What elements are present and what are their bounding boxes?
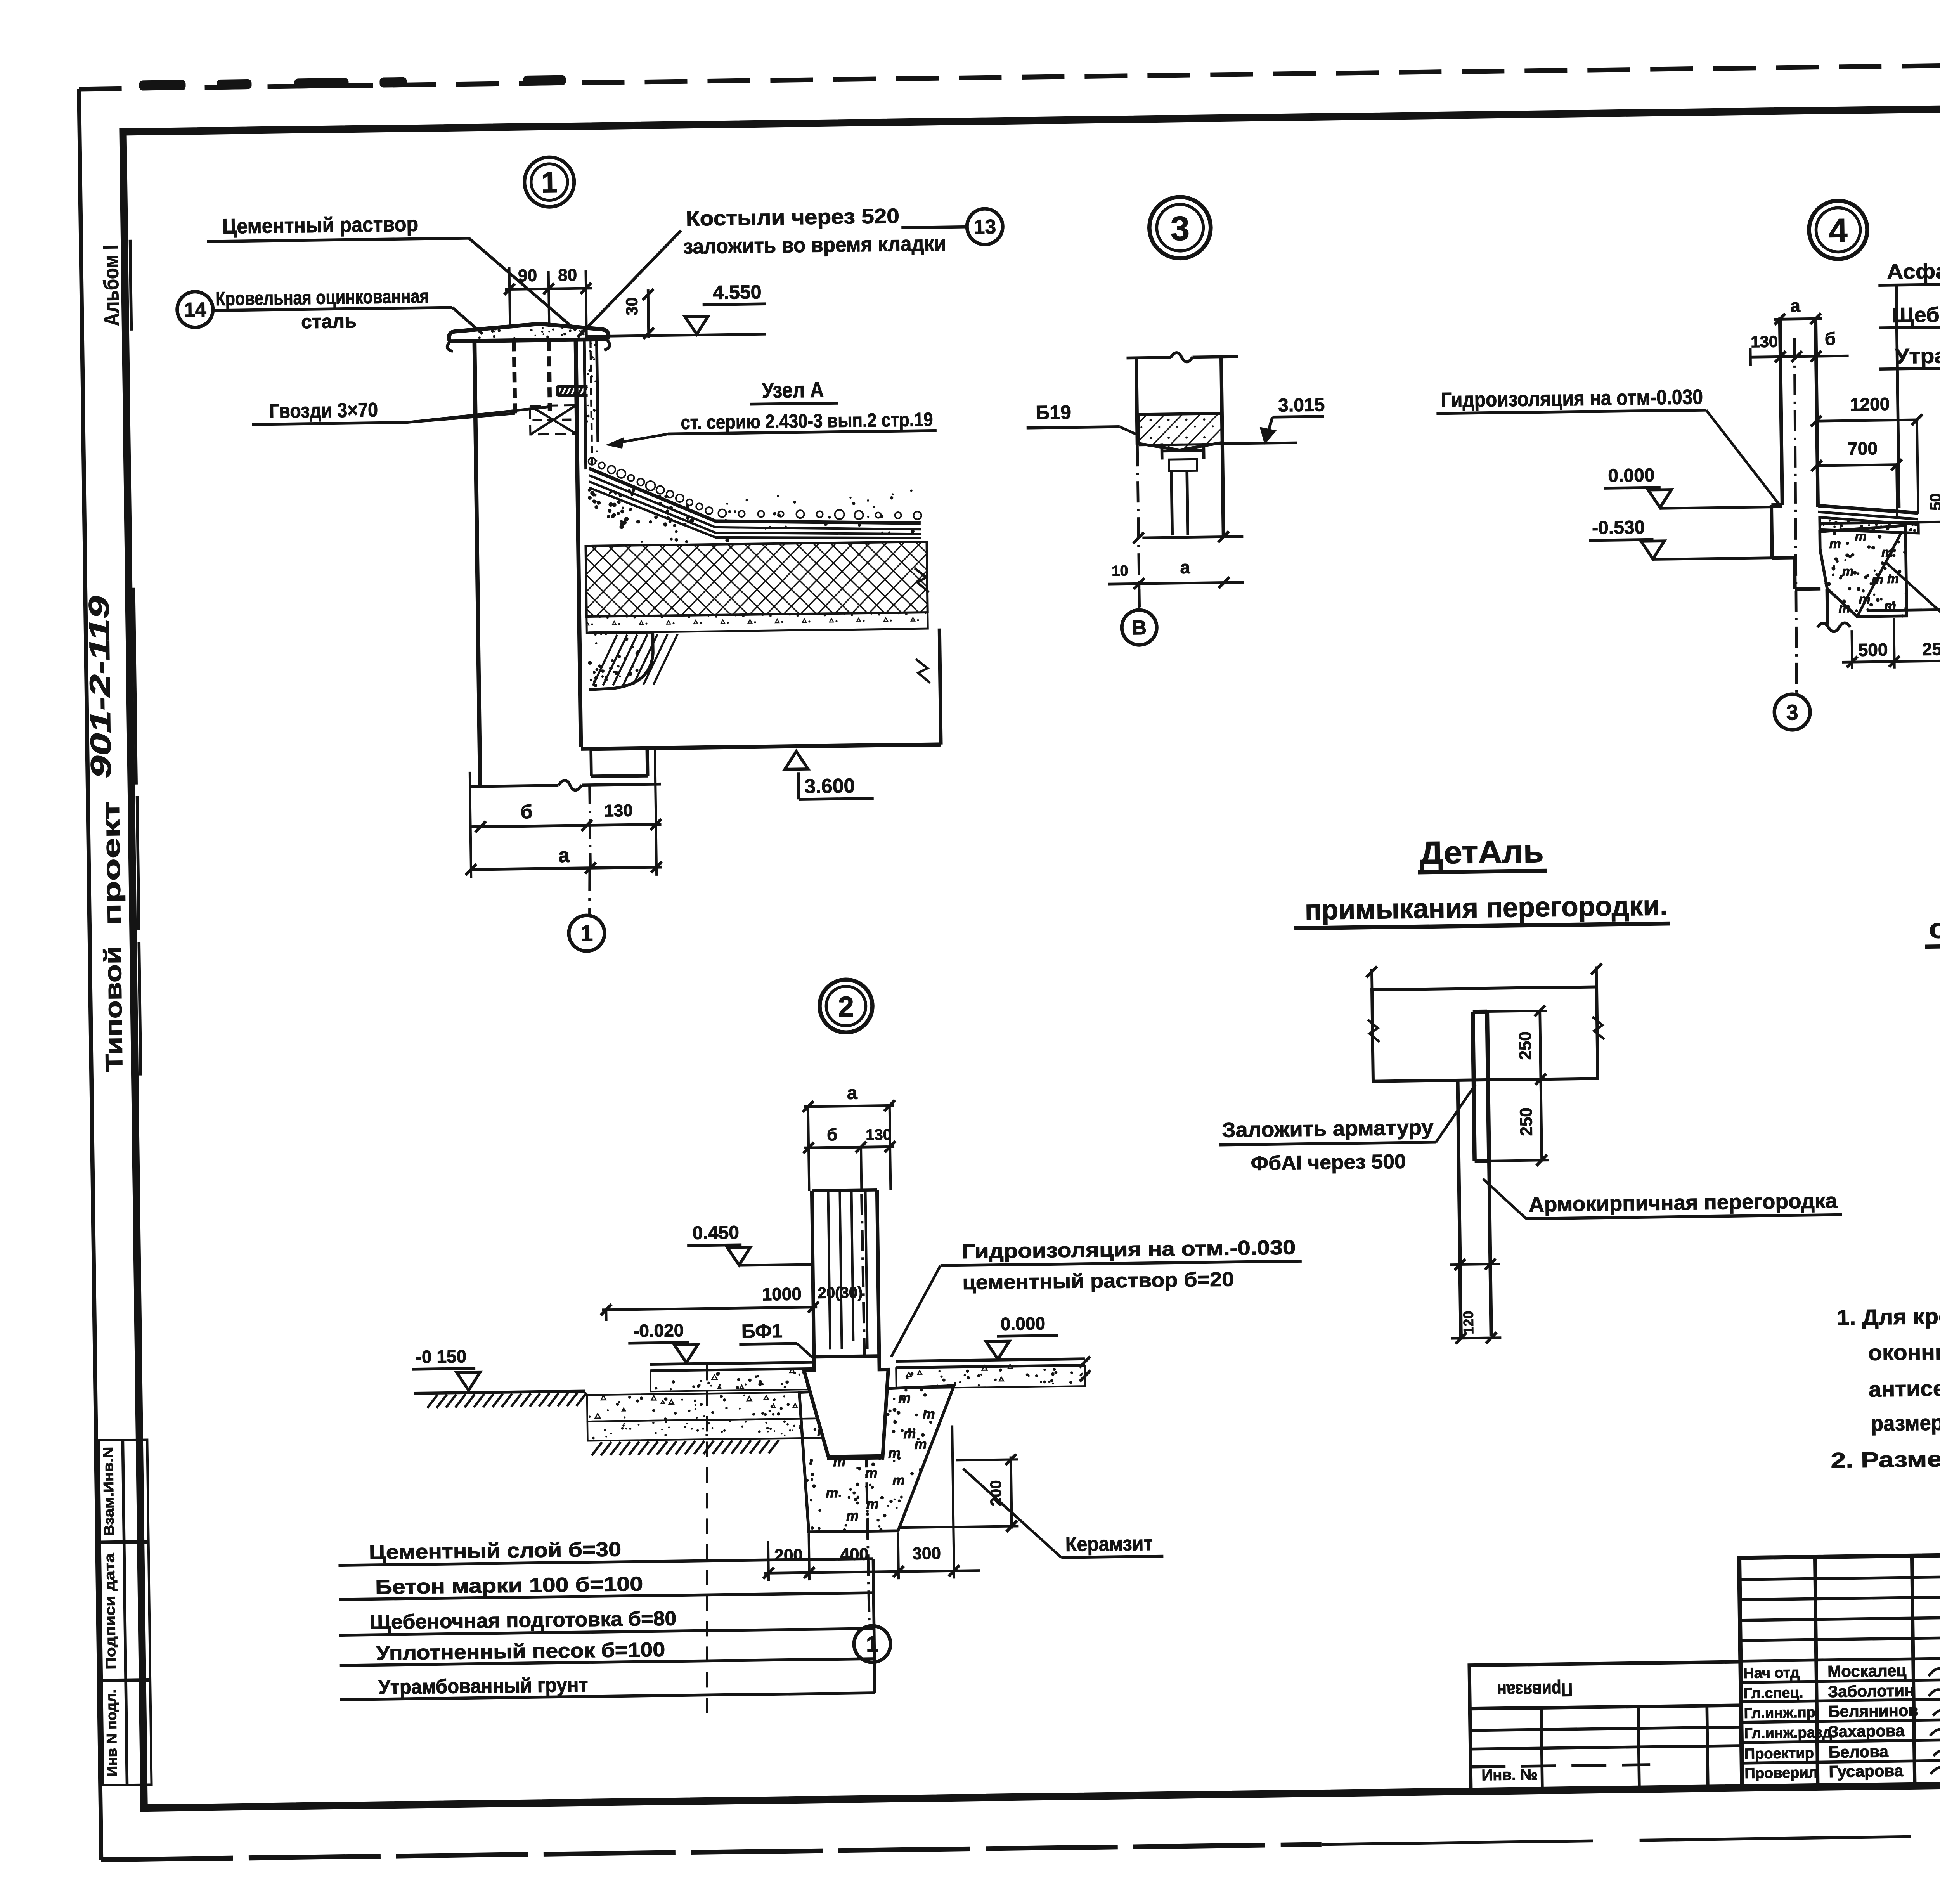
svg-text:250: 250 bbox=[1517, 1107, 1536, 1136]
svg-text:Привязан: Привязан bbox=[1497, 1679, 1573, 1700]
svg-text:m: m bbox=[888, 1445, 901, 1461]
svg-text:80: 80 bbox=[558, 265, 577, 285]
detail 4 wall faces bbox=[1780, 317, 1782, 505]
signatures squiggles bbox=[1928, 1660, 1940, 1676]
svg-text:0.450: 0.450 bbox=[692, 1222, 739, 1244]
ground hatch under sand bbox=[592, 1442, 602, 1455]
svg-text:m: m bbox=[846, 1507, 859, 1523]
svg-text:Керамзит: Керамзит bbox=[1065, 1532, 1153, 1556]
svg-text:а: а bbox=[847, 1083, 858, 1103]
title block outer bbox=[1739, 1548, 1940, 1788]
svg-text:13: 13 bbox=[973, 216, 996, 239]
svg-text:130: 130 bbox=[604, 801, 633, 821]
svg-text:Заболотин: Заболотин bbox=[1828, 1681, 1914, 1701]
svg-text:проект: проект bbox=[98, 801, 126, 926]
svg-text:1000: 1000 bbox=[762, 1284, 802, 1304]
svg-text:Белянинов: Белянинов bbox=[1828, 1701, 1918, 1720]
svg-text:-0.020: -0.020 bbox=[633, 1320, 684, 1341]
detail 3 wall edges bbox=[1136, 358, 1138, 445]
slab break mark bbox=[915, 568, 929, 592]
svg-text:14: 14 bbox=[184, 298, 206, 321]
svg-text:250: 250 bbox=[1922, 639, 1940, 659]
svg-text:700: 700 bbox=[1848, 438, 1878, 459]
svg-text:примыкания перегородки.: примыкания перегородки. bbox=[1304, 890, 1668, 926]
dimension a under wall bbox=[471, 867, 662, 870]
svg-text:1: 1 bbox=[866, 1632, 879, 1657]
detail 3 window head profile bbox=[1162, 450, 1204, 451]
svg-text:ФбАI через 500: ФбАI через 500 bbox=[1251, 1150, 1406, 1175]
svg-text:Б19: Б19 bbox=[1036, 401, 1071, 423]
section trace dashed vertical bbox=[702, 1365, 712, 1722]
svg-text:-0.530: -0.530 bbox=[1592, 517, 1645, 539]
svg-text:Гидроизоляция на отм-0.030: Гидроизоляция на отм-0.030 bbox=[1441, 385, 1703, 412]
svg-text:m: m bbox=[892, 1472, 905, 1488]
detail 2 axis dash-dot bbox=[861, 1147, 861, 1190]
elevation 3.600 bbox=[785, 751, 808, 769]
svg-text:10: 10 bbox=[1112, 563, 1128, 580]
otmostka slab detail 4 bbox=[1818, 504, 1918, 514]
detail 3 dim 10 a bbox=[1108, 582, 1244, 584]
leader nails bbox=[406, 413, 515, 423]
svg-text:Проектир: Проектир bbox=[1744, 1745, 1814, 1762]
svg-text:Инв. №: Инв. № bbox=[1481, 1766, 1538, 1784]
svg-text:Гл.спец.: Гл.спец. bbox=[1744, 1685, 1803, 1702]
detail 3 wall top line with break bbox=[1127, 357, 1171, 358]
svg-text:б: б bbox=[827, 1125, 838, 1144]
detail 1 marker circle bbox=[524, 157, 575, 207]
svg-text:m: m bbox=[1887, 572, 1899, 586]
svg-text:2: 2 bbox=[838, 991, 854, 1023]
svg-text:m: m bbox=[1842, 564, 1854, 579]
leader kostyli bbox=[576, 230, 682, 337]
gravel pebbles bbox=[589, 458, 596, 465]
wall hook bracket bbox=[557, 385, 587, 388]
rect top extensions bbox=[1370, 969, 1373, 990]
svg-text:m: m bbox=[826, 1485, 838, 1500]
svg-text:Асфальтовая отмостка б=25: Асфальтовая отмостка б=25 bbox=[1887, 256, 1940, 284]
svg-text:1200: 1200 bbox=[1850, 394, 1890, 414]
svg-text:90: 90 bbox=[518, 266, 537, 286]
svg-text:сталь: сталь bbox=[301, 310, 357, 333]
svg-text:130: 130 bbox=[866, 1126, 892, 1143]
leader gidroizolyaciya 4 bbox=[1706, 409, 1781, 508]
svg-text:Белова: Белова bbox=[1829, 1742, 1889, 1761]
svg-text:m: m bbox=[1829, 536, 1841, 551]
left ground line and hatch bbox=[414, 1391, 585, 1393]
dimension b 130 under wall bbox=[471, 825, 662, 827]
svg-text:m: m bbox=[1884, 599, 1896, 613]
svg-text:m: m bbox=[1855, 529, 1867, 544]
svg-text:Заложить арматуру: Заложить арматуру bbox=[1222, 1116, 1434, 1142]
detail 4 foundation profile bbox=[1771, 503, 1782, 507]
svg-text:Альбом I: Альбом I bbox=[99, 244, 124, 326]
svg-text:Гл.инж.пр: Гл.инж.пр bbox=[1744, 1705, 1815, 1722]
nails in wall bbox=[514, 341, 515, 415]
break marks on rect bbox=[1368, 1019, 1380, 1042]
svg-text:4: 4 bbox=[1829, 212, 1848, 249]
svg-text:Щебеночная подготовка: Щебеночная подготовка bbox=[1892, 300, 1940, 327]
svg-text:Щебеночная подготовка б=80: Щебеночная подготовка б=80 bbox=[370, 1607, 677, 1634]
partition below bbox=[1458, 1080, 1461, 1337]
svg-text:m: m bbox=[922, 1406, 935, 1422]
svg-text:901-2-119: 901-2-119 bbox=[83, 596, 117, 778]
svg-text:Взам.Инв.N: Взам.Инв.N bbox=[100, 1447, 117, 1536]
svg-text:заложить во время кладки: заложить во время кладки bbox=[683, 232, 946, 258]
svg-text:Нач отд: Нач отд bbox=[1743, 1665, 1800, 1682]
svg-text:m: m bbox=[1872, 572, 1884, 587]
svg-text:а: а bbox=[558, 844, 570, 867]
svg-text:БФ1: БФ1 bbox=[741, 1320, 783, 1342]
axis line detail 1 bbox=[589, 785, 591, 868]
svg-text:m: m bbox=[1881, 545, 1893, 560]
svg-text:цементный раствор б=20: цементный раствор б=20 bbox=[962, 1268, 1234, 1294]
svg-text:Гидроизоляция на отм.-0.030: Гидроизоляция на отм.-0.030 bbox=[962, 1236, 1296, 1263]
leader armokirpichnaya bbox=[1483, 1178, 1526, 1219]
axis circle 1 detail 1 bbox=[568, 915, 605, 951]
svg-text:Инв N подл.: Инв N подл. bbox=[103, 1689, 120, 1776]
svg-text:m: m bbox=[866, 1496, 879, 1512]
roof flashing strip on wall bbox=[584, 340, 586, 469]
svg-text:Армокирпичная перегородка: Армокирпичная перегородка bbox=[1529, 1189, 1838, 1216]
svg-text:В: В bbox=[1132, 617, 1147, 639]
wall plan rectangle bbox=[1372, 987, 1598, 1081]
title block verticals left section bbox=[1815, 1557, 1817, 1787]
svg-text:Типовой: Типовой bbox=[99, 946, 128, 1072]
svg-text:300: 300 bbox=[912, 1544, 941, 1563]
leader node A with arrow bbox=[615, 434, 668, 443]
svg-text:б: б bbox=[1825, 329, 1836, 349]
svg-text:-0 150: -0 150 bbox=[416, 1346, 466, 1367]
leader roofing steel bbox=[452, 307, 483, 334]
svg-text:4.550: 4.550 bbox=[713, 281, 762, 303]
partition wall lines bbox=[812, 1190, 877, 1191]
svg-text:а: а bbox=[1180, 557, 1190, 577]
svg-text:m: m bbox=[865, 1465, 878, 1481]
svg-text:1: 1 bbox=[541, 166, 558, 199]
detail 4 marker circle bbox=[1809, 201, 1868, 260]
underlayer crushed stone band bbox=[587, 1392, 825, 1422]
svg-text:Цементный раствор: Цементный раствор bbox=[222, 212, 419, 238]
svg-text:Захарова: Захарова bbox=[1828, 1722, 1905, 1741]
svg-text:Гл.инж.разд: Гл.инж.разд bbox=[1744, 1724, 1832, 1742]
svg-text:Узел А: Узел А bbox=[762, 377, 824, 402]
svg-text:Проверил: Проверил bbox=[1744, 1764, 1818, 1781]
leader zalozhit bbox=[1435, 1084, 1476, 1142]
title block rows left section bbox=[1739, 1576, 1940, 1580]
parapet cap bbox=[449, 323, 608, 341]
detail 3 lower dim line bbox=[1142, 537, 1243, 538]
detail 3 axis dash-dot bbox=[1137, 445, 1139, 607]
svg-text:20(30): 20(30) bbox=[818, 1284, 863, 1301]
axis circle 1 detail 2 bbox=[854, 1625, 891, 1662]
svg-text:3: 3 bbox=[1786, 700, 1798, 724]
wall shaft bbox=[475, 342, 480, 786]
svg-text:Кровельная оцинкованная: Кровельная оцинкованная bbox=[215, 285, 429, 310]
axis circle V bbox=[1139, 584, 1140, 610]
wall bottom line with break bbox=[470, 785, 558, 787]
dimension 120 partition bbox=[1450, 1264, 1500, 1265]
slab with panel end bbox=[590, 745, 941, 749]
floor slab right of wall bbox=[896, 1359, 1085, 1361]
slab top dotted band bbox=[587, 612, 928, 633]
svg-text:б: б bbox=[520, 801, 533, 823]
detail 3 marker circle bbox=[1149, 197, 1211, 259]
axis circle 3 detail 4 bbox=[1774, 694, 1810, 730]
detail 2 marker circle bbox=[819, 979, 873, 1033]
floor slab left of wall bbox=[650, 1362, 814, 1364]
svg-text:Утрамбованный грунт: Утрамбованный грунт bbox=[378, 1674, 588, 1699]
svg-text:опирания перегородки.: опирания перегородки. bbox=[1929, 909, 1940, 944]
svg-text:ДетАль: ДетАль bbox=[1419, 834, 1544, 871]
underlayer sand band bbox=[587, 1419, 826, 1441]
svg-text:размером 120×120×65.: размером 120×120×65. bbox=[1871, 1408, 1940, 1435]
wall base step bbox=[581, 748, 647, 749]
insulation crosshatch block bbox=[586, 542, 928, 617]
scan smudges top border bbox=[139, 80, 185, 91]
svg-text:Гусарова: Гусарова bbox=[1829, 1762, 1904, 1781]
keramzit trapezoid fill bbox=[799, 1386, 956, 1532]
foundation beam BF1 white bbox=[804, 1356, 889, 1457]
svg-text:Москалец: Москалец bbox=[1827, 1661, 1907, 1681]
svg-text:30: 30 bbox=[622, 297, 641, 315]
svg-text:3.600: 3.600 bbox=[804, 774, 855, 798]
detail 4 axis dash-dot bbox=[1792, 338, 1799, 694]
svg-text:0.000: 0.000 bbox=[1608, 465, 1655, 486]
callout circle 13 bbox=[967, 209, 1003, 245]
svg-text:Гвозди 3×70: Гвозди 3×70 bbox=[269, 399, 378, 423]
labels connector line bbox=[1896, 285, 1899, 508]
svg-text:50: 50 bbox=[1927, 493, 1940, 511]
svg-text:m: m bbox=[1859, 592, 1871, 607]
svg-text:а: а bbox=[1790, 296, 1801, 316]
svg-text:120: 120 bbox=[1460, 1311, 1476, 1334]
callout circle 14 bbox=[177, 291, 213, 327]
leader cement mortar bbox=[469, 237, 576, 331]
svg-text:500: 500 bbox=[1858, 639, 1888, 660]
roof screed dotted band bbox=[658, 495, 662, 499]
sheet outer border bbox=[79, 58, 1940, 89]
svg-text:m: m bbox=[914, 1436, 927, 1452]
left margin stamp boxes bbox=[99, 1440, 151, 1785]
svg-text:Подписи дата: Подписи дата bbox=[101, 1552, 119, 1670]
svg-text:3.015: 3.015 bbox=[1278, 395, 1325, 416]
partition slot bbox=[1473, 1010, 1487, 1014]
svg-text:250: 250 bbox=[1516, 1031, 1535, 1060]
svg-text:1: 1 bbox=[580, 921, 593, 946]
svg-text:130: 130 bbox=[1751, 332, 1778, 351]
svg-text:Утрамбованный грунт: Утрамбованный грунт bbox=[1895, 341, 1940, 368]
small table privyazan bbox=[1469, 1662, 1742, 1791]
svg-text:3: 3 bbox=[1170, 209, 1190, 248]
svg-text:m: m bbox=[898, 1390, 911, 1406]
roof gravel slope bbox=[589, 464, 921, 527]
svg-text:200: 200 bbox=[774, 1545, 803, 1565]
svg-text:400: 400 bbox=[840, 1545, 869, 1564]
detail 3 lintel hatched band bbox=[1138, 413, 1222, 450]
leader gidroizolyaciya 2 bbox=[890, 1266, 942, 1357]
svg-text:0.000: 0.000 bbox=[1000, 1313, 1045, 1334]
svg-text:m: m bbox=[1838, 601, 1850, 615]
svg-text:Цементный слой б=30: Цементный слой б=30 bbox=[369, 1538, 622, 1564]
svg-text:Костыли через 520: Костыли через 520 bbox=[686, 204, 900, 230]
leader zasypka bbox=[1886, 562, 1940, 659]
detail 4 foundation concrete with keramzit bbox=[1820, 525, 1907, 617]
lintel dashed box bbox=[530, 405, 577, 434]
